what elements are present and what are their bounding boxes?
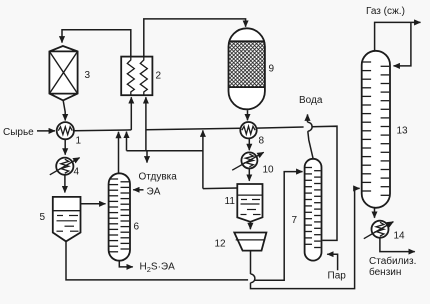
svg-text:ЭА: ЭА <box>147 187 161 198</box>
separator S5 <box>53 197 81 242</box>
vessel E12 <box>234 233 266 251</box>
wire: reactor 3 outlet down to heat exchanger 1 <box>63 101 65 121</box>
wire: water line hop over feed line <box>308 122 313 131</box>
wire: feed line from exchanger 2 to separator train and column 7 <box>146 126 337 240</box>
svg-text:Отдувка: Отдувка <box>139 172 178 183</box>
wire: ЭА inlet arrow into column 6 <box>133 189 143 191</box>
wire: separator 11 gas line to feed line <box>203 187 238 190</box>
wire: separator 5 bottoms line <box>66 172 303 281</box>
svg-text:7: 7 <box>292 215 298 226</box>
air cooler X14 <box>372 221 389 238</box>
wire: column 6 bottoms to H2S-ЭА <box>119 261 133 267</box>
svg-text:6: 6 <box>134 222 140 233</box>
wire: column 13 bottoms down to cooler 14 <box>374 208 376 218</box>
wire: heat exchanger 2 top to reactor 3 inlet <box>62 30 131 57</box>
air cooler X10 <box>241 152 257 168</box>
wire: heat exchanger 1 down to cooler 4 <box>64 139 66 154</box>
svg-text:Газ (сж.): Газ (сж.) <box>366 6 405 17</box>
wire: vessel 12 outlet down to bottom header <box>250 250 252 274</box>
svg-text:14: 14 <box>394 231 406 242</box>
separator S11 <box>237 184 262 222</box>
svg-text:бензин: бензин <box>369 266 401 278</box>
svg-text:5: 5 <box>40 212 46 223</box>
wire: Сырье feed arrow into heat exchanger 1 <box>37 130 55 132</box>
reactor R9 <box>229 28 265 109</box>
svg-text:12: 12 <box>215 239 227 250</box>
wire: purge join arrow up into feed line at x=126.5 <box>126 132 128 151</box>
svg-text:9: 9 <box>269 64 275 75</box>
wire: heat exchanger 2 top to reactor 9 inlet <box>144 19 246 57</box>
heat exchanger T2 <box>121 57 152 96</box>
wire: cooler 4 down to separator 5 <box>64 175 66 193</box>
wire: blow-off branch down to Отдувка <box>146 151 148 163</box>
wire: Пар steam line into column 7 <box>327 254 337 270</box>
svg-text:1: 1 <box>76 136 82 147</box>
svg-text:2: 2 <box>156 71 162 82</box>
wire: riser into heat exchanger 2 bottom left <box>130 97 132 130</box>
wire: heat exchanger 8 down to cooler 10 <box>248 138 250 150</box>
wire: feed line from heat exchanger 1 to riser of exchanger 2 <box>74 129 131 132</box>
svg-text:4: 4 <box>74 167 80 178</box>
wire: line hop over separator 5 header <box>251 274 255 283</box>
wire: bottom header to column 13 feed <box>251 188 360 288</box>
wire: separator 11 outlet down to vessel 12 <box>249 222 251 230</box>
reactor R3 <box>49 46 77 100</box>
wire: column 13 overhead to Газ export <box>375 22 421 50</box>
svg-text:Сырье: Сырье <box>3 127 34 138</box>
wire: reflux return into column 13 <box>394 22 411 66</box>
wire: cooler 14 outlet to Стабилиз. бензин <box>380 238 415 252</box>
wire: column 6 overhead line join arrow into feed line <box>118 132 120 173</box>
svg-text:Пар: Пар <box>328 271 347 282</box>
column K7 <box>305 159 322 261</box>
svg-text:11: 11 <box>225 196 236 207</box>
svg-text:10: 10 <box>263 165 275 176</box>
wire: separator 5 outlet to column 6 <box>81 203 106 205</box>
wire: gas riser join arrow into feed line <box>202 130 204 188</box>
svg-text:8: 8 <box>259 136 265 147</box>
wire: purge gas header <box>127 150 203 152</box>
svg-text:13: 13 <box>397 126 409 137</box>
svg-text:3: 3 <box>85 70 91 81</box>
wire: reactor 9 outlet down to heat exchanger 8 <box>247 110 249 120</box>
heat exchanger T8 <box>240 122 256 138</box>
svg-text:H2S·ЭА: H2S·ЭА <box>140 262 176 274</box>
svg-text:Вода: Вода <box>299 95 323 106</box>
wire: heat exchanger 2 bottom right line with up arrow <box>145 97 147 151</box>
wire: water line from column 7 top to Вода <box>308 131 313 158</box>
column K6 <box>109 173 130 260</box>
column K13 <box>362 51 390 208</box>
air cooler X4 <box>56 158 73 175</box>
svg-text:Стабилиз.: Стабилиз. <box>369 255 416 267</box>
heat exchanger T1 <box>57 122 74 139</box>
wire: cooler 10 down to separator 11 <box>248 169 250 181</box>
wire: water arrow up to Вода <box>307 114 309 122</box>
